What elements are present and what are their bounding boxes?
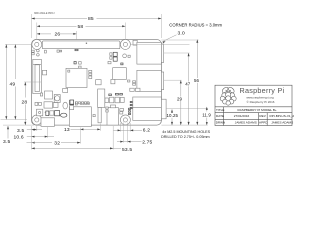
ext line right hole up: [124, 23, 126, 41]
ext line 26-dim down: [76, 31, 78, 40]
svg-text:DRWN: DRWN: [216, 120, 226, 124]
SoC U1: [66, 68, 87, 87]
dim 29: [180, 80, 182, 96]
svg-text:4x M2.5 MOUNTING HOLES: 4x M2.5 MOUNTING HOLES: [162, 130, 210, 134]
title block: [215, 85, 294, 125]
ext line left hole up: [36, 23, 38, 41]
mounting hole bottom-right: [120, 115, 130, 125]
Ethernet connector: [133, 97, 162, 120]
svg-text:27/01/2016: 27/01/2016: [234, 114, 250, 118]
svg-text:53.5: 53.5: [122, 147, 132, 153]
board outline: [32, 40, 162, 126]
dim 53.5: [32, 147, 122, 149]
svg-text:85: 85: [88, 16, 94, 22]
svg-text:Raspberry Pi: Raspberry Pi: [240, 86, 285, 95]
raspberry pi logo: [220, 86, 236, 105]
svg-text:32: 32: [54, 141, 60, 147]
dimension 58: [37, 25, 77, 27]
dim 32: [61, 142, 80, 144]
bottom extension lines: [31, 126, 33, 150]
audio jack: [107, 108, 119, 125]
USB connector 1: [137, 42, 162, 64]
svg-text:JAMES ADAMS: JAMES ADAMS: [235, 120, 257, 124]
svg-text:56: 56: [194, 78, 200, 83]
USB connector 2: [137, 70, 162, 91]
mounting hole bottom-left: [32, 115, 42, 125]
mounting hole top-right: [120, 39, 130, 49]
svg-text:2.75: 2.75: [142, 139, 152, 145]
svg-text:11.9: 11.9: [202, 113, 211, 118]
parts near USB1: [110, 53, 112, 56]
PoE header: [133, 40, 137, 45]
LAN chip U2: [113, 68, 127, 80]
svg-text:JAMES ADAMS: JAMES ADAMS: [271, 120, 293, 124]
svg-text:49: 49: [10, 81, 16, 87]
ext line left board edge up: [31, 14, 33, 38]
dim 10.25: [171, 109, 173, 113]
svg-text:10.25: 10.25: [167, 113, 179, 118]
dim 6.2: [114, 129, 143, 131]
svg-text:TITLE: TITLE: [216, 108, 224, 112]
svg-text:APPD: APPD: [259, 120, 268, 124]
micro-USB power: [41, 118, 55, 127]
svg-text:CORNER RADIUS = 3.0mm: CORNER RADIUS = 3.0mm: [169, 22, 222, 27]
svg-text:www.raspberrypi.org: www.raspberrypi.org: [246, 95, 274, 99]
dim 2.75: [117, 141, 142, 143]
svg-text:47: 47: [185, 82, 191, 87]
svg-text:3RD ANGLE PROJ: 3RD ANGLE PROJ: [34, 12, 55, 15]
mounting hole top-left: [32, 39, 42, 49]
svg-text:10.6: 10.6: [14, 135, 24, 141]
HDMI connector: [69, 107, 91, 127]
right side extension lines: [161, 39, 198, 41]
CSI camera connector: [98, 89, 105, 108]
DSI display connector: [33, 59, 42, 93]
GPIO header J8: [42, 41, 120, 49]
svg-text:© Raspberry Pi 2016: © Raspberry Pi 2016: [247, 100, 275, 104]
svg-text:6.2: 6.2: [143, 127, 150, 133]
svg-text:58: 58: [78, 24, 84, 30]
dim 47: [188, 53, 190, 82]
left side extension lines: [5, 43, 32, 45]
svg-text:RASPBERRY PI MODEL B+: RASPBERRY PI MODEL B+: [238, 108, 277, 112]
svg-text:26: 26: [55, 32, 61, 38]
parts center: [75, 49, 78, 50]
svg-text:3.5: 3.5: [17, 128, 24, 134]
svg-text:29: 29: [177, 96, 183, 101]
svg-text:DRILLED TO 2.75+/- 0.05mm: DRILLED TO 2.75+/- 0.05mm: [161, 135, 210, 139]
dimension 26: [37, 33, 51, 35]
dimension 85: [32, 18, 88, 20]
svg-text:28: 28: [22, 100, 28, 106]
svg-text:RPI-BPLUS-V1_2: RPI-BPLUS-V1_2: [270, 114, 295, 118]
parts below DSI: [40, 93, 42, 96]
svg-text:13: 13: [64, 127, 70, 133]
svg-text:3.5: 3.5: [3, 139, 10, 145]
svg-text:3.0: 3.0: [178, 31, 185, 37]
dim 28 left: [24, 82, 26, 98]
dim 56: [196, 40, 198, 79]
small parts left edge: [32, 50, 35, 52]
svg-text:DATE: DATE: [216, 114, 224, 118]
parts near ethernet and bottom center: [130, 88, 134, 91]
dim 11.9: [206, 107, 208, 112]
dim 49 left: [5, 44, 7, 119]
svg-text:REV: REV: [259, 114, 266, 118]
dim 3.5 vertical bottom-left: [7, 126, 9, 139]
ext line right board edge up: [160, 14, 162, 38]
